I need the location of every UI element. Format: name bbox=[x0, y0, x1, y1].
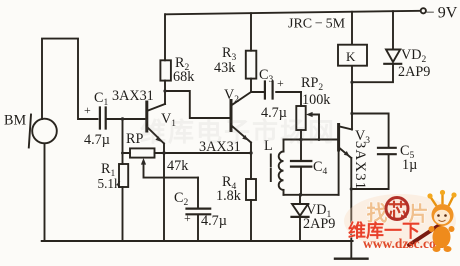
svg-text:1µ: 1µ bbox=[402, 157, 417, 173]
svg-text:K: K bbox=[346, 49, 356, 64]
svg-text:2AP9: 2AP9 bbox=[303, 216, 335, 232]
svg-text:V2: V2 bbox=[224, 87, 239, 105]
svg-text:68k: 68k bbox=[173, 69, 195, 85]
svg-text:C3: C3 bbox=[259, 67, 273, 85]
svg-text:2AP9: 2AP9 bbox=[398, 64, 430, 80]
svg-text:RP2: RP2 bbox=[301, 75, 323, 93]
svg-text:JRC − 5M: JRC − 5M bbox=[288, 17, 346, 32]
svg-text:100k: 100k bbox=[302, 92, 331, 108]
svg-text:维库电子市场网: 维库电子市场网 bbox=[140, 117, 336, 147]
svg-text:4.7µ: 4.7µ bbox=[201, 213, 227, 229]
svg-text:3AX31: 3AX31 bbox=[112, 88, 154, 104]
svg-text:+: + bbox=[184, 211, 191, 225]
svg-text:C1: C1 bbox=[94, 90, 108, 108]
svg-text:5.1k: 5.1k bbox=[98, 176, 121, 191]
svg-text:C2: C2 bbox=[174, 190, 188, 208]
svg-text:+: + bbox=[84, 103, 91, 117]
svg-text:43k: 43k bbox=[214, 60, 236, 76]
svg-text:BM: BM bbox=[4, 113, 26, 129]
svg-text:4.7µ: 4.7µ bbox=[84, 132, 110, 148]
svg-text:1.8k: 1.8k bbox=[216, 188, 242, 204]
svg-text:3AX31: 3AX31 bbox=[352, 141, 368, 190]
svg-text:C4: C4 bbox=[313, 159, 327, 177]
svg-text:− 9V: − 9V bbox=[426, 5, 458, 22]
svg-text:47k: 47k bbox=[167, 158, 189, 174]
svg-text:+: + bbox=[277, 76, 284, 90]
svg-text:VD2: VD2 bbox=[401, 47, 427, 65]
